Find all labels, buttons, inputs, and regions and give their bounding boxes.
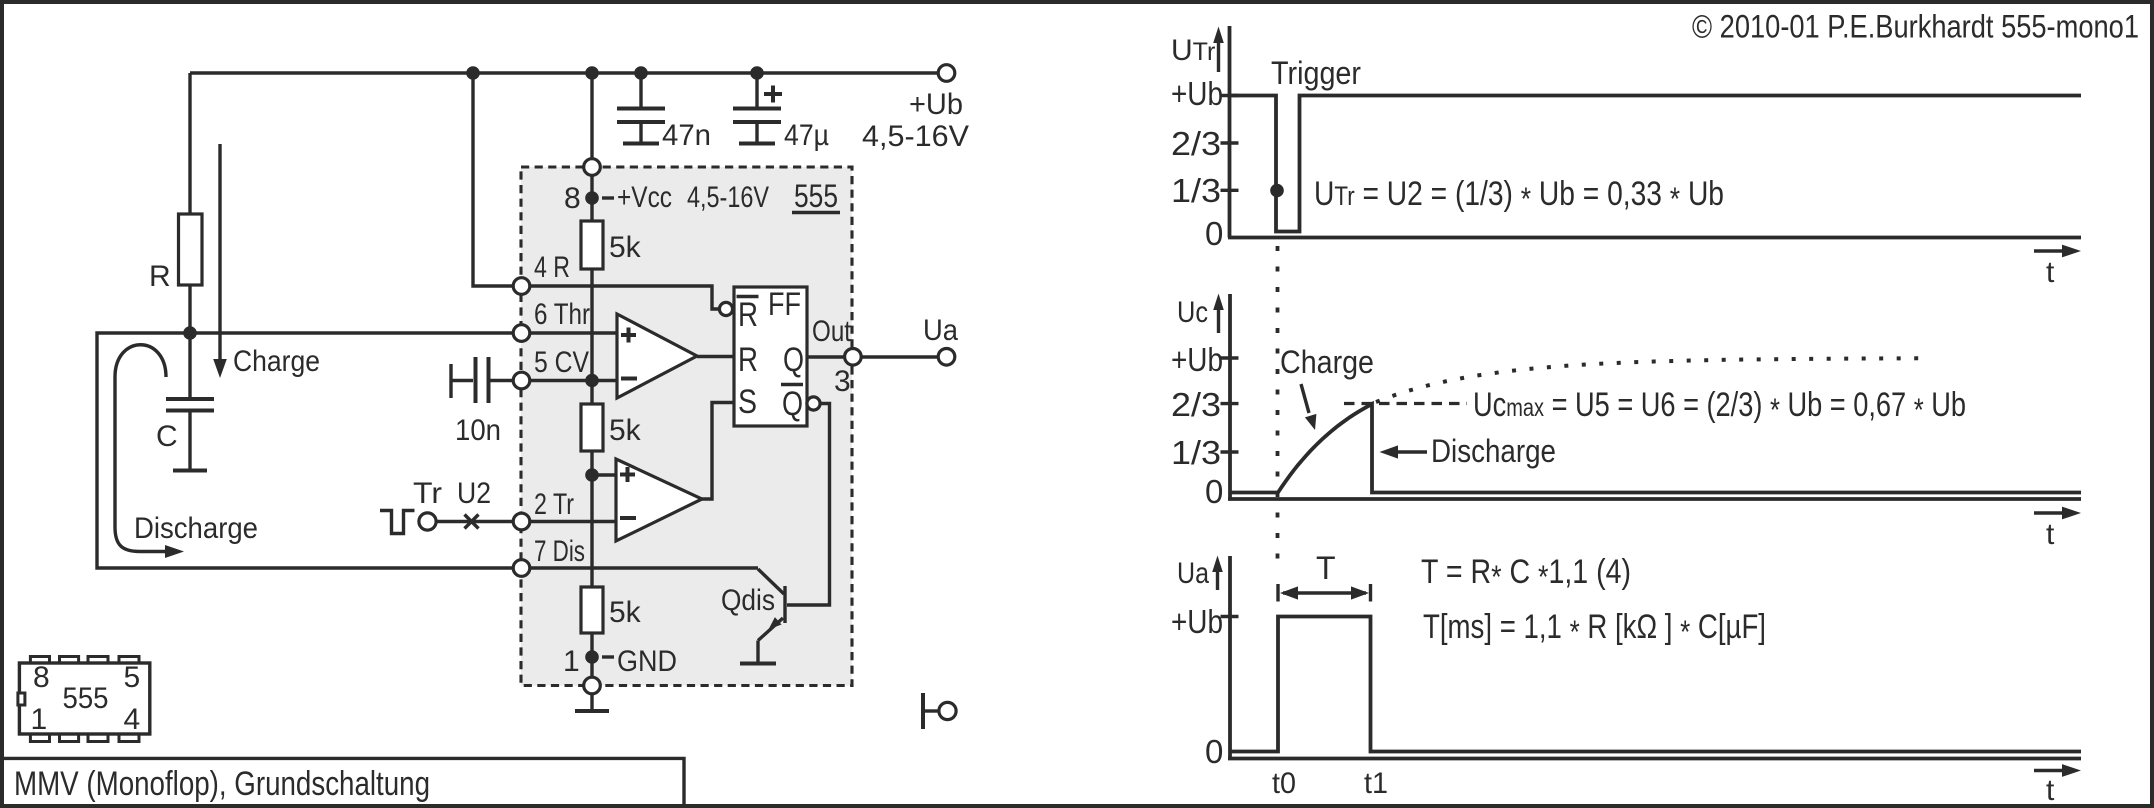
- svg-text:Q: Q: [782, 385, 803, 423]
- svg-text:2/3: 2/3: [1171, 386, 1221, 423]
- svg-text:1: 1: [563, 645, 580, 678]
- svg-text:Charge: Charge: [1280, 344, 1374, 380]
- svg-text:R: R: [738, 296, 758, 334]
- svg-text:+Ub: +Ub: [909, 88, 963, 121]
- svg-text:+Ub: +Ub: [1171, 603, 1223, 640]
- svg-text:T = R* C *1,1 (4): T = R* C *1,1 (4): [1421, 553, 1631, 595]
- svg-text:FF: FF: [768, 286, 801, 322]
- svg-text:Charge: Charge: [233, 345, 320, 378]
- svg-text:555: 555: [63, 682, 109, 715]
- svg-text:Q: Q: [783, 341, 804, 379]
- svg-text:5k: 5k: [609, 596, 642, 629]
- svg-text:Ua: Ua: [1177, 557, 1209, 590]
- svg-text:C: C: [156, 420, 178, 453]
- svg-text:5k: 5k: [609, 231, 642, 264]
- svg-text:MMV (Monoflop), Grundschaltung: MMV (Monoflop), Grundschaltung: [14, 765, 430, 803]
- svg-text:4: 4: [124, 703, 141, 736]
- svg-text:Ua: Ua: [923, 314, 958, 347]
- svg-text:4 R: 4 R: [534, 251, 570, 284]
- svg-text:Discharge: Discharge: [1431, 433, 1556, 469]
- svg-text:2 Tr: 2 Tr: [534, 488, 574, 521]
- svg-text:1/3: 1/3: [1171, 172, 1221, 209]
- svg-text:Uc: Uc: [1177, 296, 1208, 329]
- svg-text:t1: t1: [1364, 767, 1388, 800]
- svg-text:47n: 47n: [662, 119, 711, 152]
- svg-text:2/3: 2/3: [1171, 125, 1221, 162]
- svg-text:3: 3: [834, 365, 851, 398]
- svg-text:t: t: [2046, 774, 2055, 807]
- svg-text:5: 5: [124, 661, 141, 694]
- svg-text:t: t: [2046, 256, 2055, 289]
- svg-text:R: R: [149, 260, 171, 293]
- svg-text:10n: 10n: [455, 414, 501, 447]
- svg-text:T: T: [1316, 550, 1336, 586]
- svg-text:47µ: 47µ: [784, 119, 829, 152]
- svg-text:555: 555: [794, 178, 838, 214]
- svg-text:S: S: [738, 383, 757, 421]
- svg-text:UTr = U2 = (1/3) * Ub = 0,33 *: UTr = U2 = (1/3) * Ub = 0,33 * Ub: [1314, 175, 1724, 217]
- svg-text:Qdis: Qdis: [721, 584, 775, 617]
- svg-text:T[ms] = 1,1 * R [kΩ ] * C[µF]: T[ms] = 1,1 * R [kΩ ] * C[µF]: [1423, 608, 1766, 650]
- svg-text:Discharge: Discharge: [134, 512, 258, 545]
- svg-text:U2: U2: [457, 477, 491, 510]
- svg-text:1: 1: [31, 703, 48, 736]
- svg-text:GND: GND: [617, 645, 677, 678]
- svg-text:R: R: [738, 341, 758, 379]
- svg-text:5k: 5k: [609, 414, 642, 447]
- svg-text:6 Thr: 6 Thr: [534, 298, 590, 331]
- svg-text:Trigger: Trigger: [1271, 55, 1361, 91]
- svg-text:0: 0: [1205, 215, 1223, 252]
- svg-text:Out: Out: [812, 315, 852, 348]
- svg-text:0: 0: [1205, 473, 1223, 510]
- svg-text:7 Dis: 7 Dis: [534, 535, 585, 568]
- svg-text:4,5-16V: 4,5-16V: [687, 181, 769, 214]
- svg-text:t0: t0: [1272, 767, 1296, 800]
- svg-text:Ucmax = U5 = U6 = (2/3) * Ub =: Ucmax = U5 = U6 = (2/3) * Ub = 0,67 * Ub: [1473, 386, 1966, 428]
- svg-text:8: 8: [33, 661, 50, 694]
- svg-text:+Ub: +Ub: [1171, 75, 1223, 112]
- svg-text:4,5-16V: 4,5-16V: [862, 120, 969, 153]
- svg-text:+Ub: +Ub: [1171, 341, 1223, 378]
- svg-text:© 2010-01 P.E.Burkhardt 555-mo: © 2010-01 P.E.Burkhardt 555-mono1: [1692, 9, 2139, 45]
- svg-text:8: 8: [564, 182, 581, 215]
- svg-text:t: t: [2046, 518, 2055, 551]
- svg-text:UTr: UTr: [1171, 34, 1215, 67]
- svg-text:5 CV: 5 CV: [534, 346, 589, 379]
- svg-text:+Vcc: +Vcc: [617, 181, 672, 214]
- svg-text:0: 0: [1205, 733, 1223, 770]
- svg-text:1/3: 1/3: [1171, 434, 1221, 471]
- svg-text:Tr: Tr: [413, 477, 442, 510]
